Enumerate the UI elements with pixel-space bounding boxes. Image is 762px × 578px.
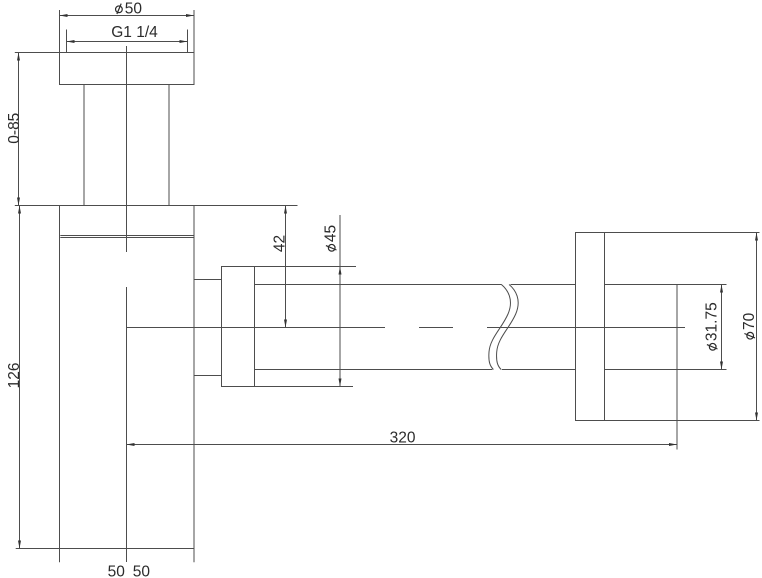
pipe top edge (nut to break) (255, 284, 502, 286)
svg-text:320: 320 (390, 430, 416, 447)
dim 0-85 line (18, 53, 20, 206)
dim phi70 extension top (605, 232, 760, 234)
outlet step connector top (194, 279, 222, 281)
svg-text:31.75: 31.75 (704, 302, 721, 341)
arrow phi70 bottom (755, 413, 758, 421)
arrow phi50 right (186, 14, 194, 17)
cap (tailpiece flange) (60, 53, 195, 85)
arrow phi45 top (339, 267, 342, 275)
dim phi70 line (756, 233, 758, 421)
body groove line 2 (60, 237, 193, 239)
svg-text:70: 70 (741, 312, 758, 330)
arrow 126 bottom (18, 541, 21, 549)
arrow 42 top (284, 206, 287, 214)
dim phi70 extension bottom (605, 420, 760, 422)
dim 126 line (19, 206, 21, 549)
dim phi31.75 extension top (677, 284, 727, 286)
body-top extension to left (15, 205, 60, 207)
pipe break squiggle left (489, 285, 511, 370)
arrow 0-85 bottom (17, 198, 20, 206)
bottle body outline (60, 206, 195, 549)
horizontal centerline short dash (419, 327, 453, 329)
dim phi50 line (60, 15, 195, 17)
dim phi50 extension right (193, 10, 195, 52)
dim phi45 extension bottom (255, 386, 354, 388)
pipe bottom edge (nut to break) (255, 369, 493, 371)
body-top extension to right (194, 205, 298, 207)
arrow G1 left (67, 40, 75, 43)
dim 320 line (127, 444, 678, 446)
arrow phi31.75 top (720, 285, 723, 293)
dim phi31.75 extension bottom (677, 369, 727, 371)
svg-text:G1 1/4: G1 1/4 (111, 24, 158, 41)
arrow phi45 bottom (339, 379, 342, 387)
svg-text:45: 45 (323, 225, 340, 242)
arrow 320 right (669, 443, 677, 446)
svg-text:50: 50 (133, 564, 151, 578)
dim phi45 line (339, 215, 341, 387)
pipe top edge (flange to end) (605, 284, 678, 286)
arrow 0-85 top (17, 53, 20, 61)
horizontal centerline long left segment (127, 327, 386, 329)
cap-top extension to left (15, 52, 60, 54)
svg-text:126: 126 (6, 362, 23, 388)
arrow G1 right (180, 40, 188, 43)
svg-text:42: 42 (272, 235, 289, 252)
arrow phi70 top (755, 233, 758, 241)
compression nut (222, 267, 255, 387)
dim G1 1/4 tick right (187, 30, 189, 53)
arrow phi50 left (60, 14, 68, 17)
pipe end wall (676, 285, 678, 370)
arrow 42 bottom (284, 320, 287, 328)
svg-text:0-85: 0-85 (6, 113, 23, 144)
dim phi31.75 line (721, 285, 723, 370)
dim G1 1/4 line (67, 41, 188, 43)
label phi70 (741, 312, 758, 339)
horizontal centerline right segment (487, 327, 685, 329)
arrow phi31.75 bottom (720, 362, 723, 370)
pipe top edge (break to flange) (511, 284, 576, 286)
pipe bottom edge (break to flange) (502, 369, 576, 371)
arrow 126 top (18, 206, 21, 214)
label phi45 (323, 225, 340, 251)
body-bottom extension to left (16, 548, 60, 550)
svg-text:50: 50 (108, 564, 126, 578)
dim G1 1/4 tick left (66, 30, 68, 53)
pipe break squiggle right (497, 285, 519, 370)
body groove line 1 (60, 235, 193, 237)
dim phi50 extension left (59, 10, 61, 52)
dim 320 extension at pipe end (676, 370, 678, 450)
tailpiece tube right wall (168, 85, 170, 206)
vertical centerline lower segment (126, 287, 128, 562)
vertical centerline upper segment (126, 46, 128, 252)
arrow 320 left (127, 443, 135, 446)
body-left extension below bottom (59, 549, 61, 563)
dim phi45 extension top (255, 266, 357, 268)
label phi50 (116, 0, 143, 17)
label phi31.75 (704, 302, 721, 350)
tailpiece tube left wall (83, 85, 85, 206)
body-right extension below bottom (193, 549, 195, 563)
svg-text:50: 50 (125, 0, 143, 17)
outlet step connector bottom (194, 375, 222, 377)
pipe bottom edge (flange to end) (605, 369, 678, 371)
wall flange (576, 233, 605, 421)
dim 42 line (285, 206, 287, 328)
